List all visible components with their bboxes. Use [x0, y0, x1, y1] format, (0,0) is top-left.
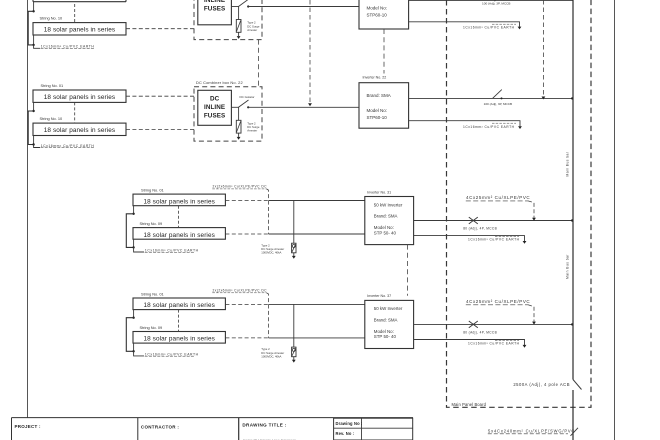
wire: string1 dashed to combiner 2	[126, 95, 194, 97]
wire: inverter1 earth	[409, 22, 520, 27]
svg-text:Inverter No. 31: Inverter No. 31	[367, 190, 391, 194]
wire: inverter AC output	[414, 220, 573, 222]
node: junction dot string2	[32, 143, 34, 145]
svg-text:Drawing No :: Drawing No :	[336, 421, 363, 426]
solar string box 2: 18 solar panels in series	[133, 228, 225, 240]
wire: collector to inverter input 1	[269, 200, 365, 202]
svg-text:DC Isolator: DC Isolator	[240, 95, 255, 99]
svg-text:50 kW Inverter: 50 kW Inverter	[374, 202, 403, 207]
svg-text:String No. 09: String No. 09	[140, 221, 163, 226]
wire: arrester to earth	[238, 32, 240, 36]
svg-text:100 (Adj), 3P, MCCB: 100 (Adj), 3P, MCCB	[482, 1, 511, 5]
solar string box 1: 18 solar panels in series	[33, 90, 126, 102]
wire: string2 drop	[133, 343, 135, 351]
MCCB X symbol	[469, 321, 478, 328]
svg-text:50 kW Inverter: 50 kW Inverter	[374, 306, 403, 311]
wire: surge arrester drop	[238, 7, 240, 20]
drawing no cell box	[334, 418, 413, 440]
svg-text:2x(2x6mm² Cu/XLPE/PVC DC: 2x(2x6mm² Cu/XLPE/PVC DC	[213, 289, 268, 293]
node: bus junction	[571, 219, 573, 221]
svg-text:18 solar panels in series: 18 solar panels in series	[44, 127, 115, 134]
wire: collector to inverter input 2	[269, 337, 365, 339]
node: bus junction	[571, 323, 573, 325]
solar string box (top, cropped) bottom edge	[33, 1, 126, 3]
DC combiner enclosure (dashed)	[194, 0, 262, 40]
svg-text:Model No:: Model No:	[374, 225, 394, 230]
inverter box SMA STP60-10	[359, 0, 409, 29]
svg-text:1Cx16mm² Cu/PVC EARTH: 1Cx16mm² Cu/PVC EARTH	[41, 45, 95, 49]
earth arrow	[523, 241, 527, 244]
svg-text:DC: DC	[210, 96, 220, 103]
svg-text:CONTRACTOR :: CONTRACTOR :	[141, 424, 179, 429]
breaker blade inverter2	[493, 90, 502, 99]
DC isolator switch blade	[239, 100, 249, 107]
arrow: AC leader onto wire	[532, 322, 536, 325]
svg-text:80 (Adj), 4P, MCCB: 80 (Adj), 4P, MCCB	[463, 331, 497, 335]
svg-text:String No. 10: String No. 10	[40, 16, 64, 21]
node: junction dot string2	[32, 44, 34, 46]
svg-text:FUSES: FUSES	[204, 6, 226, 13]
svg-text:4Cx25mm² Cu/XLPE/PVC: 4Cx25mm² Cu/XLPE/PVC	[466, 195, 530, 200]
wire: inverter2 earth	[409, 121, 520, 127]
svg-text:STP 50- 40: STP 50- 40	[374, 230, 397, 235]
feeder cable tick	[571, 428, 579, 436]
svg-text:STP60-10: STP60-10	[367, 115, 388, 120]
svg-text:4Cx25mm² Cu/XLPE/PVC: 4Cx25mm² Cu/XLPE/PVC	[466, 299, 530, 304]
svg-text:1Cx16mm² Cu/PVC EARTH: 1Cx16mm² Cu/PVC EARTH	[463, 125, 515, 129]
dashed AC cable leader	[528, 305, 534, 322]
MCCB X symbol	[469, 217, 478, 224]
svg-text:18 solar panels in series: 18 solar panels in series	[143, 198, 214, 205]
svg-text:STP60-10: STP60-10	[367, 13, 388, 18]
wire: string2 dashed to collector	[225, 233, 268, 235]
earth arrow inverter2	[518, 126, 522, 129]
node: dot string1	[132, 213, 134, 215]
wire: fuse box to isolator	[231, 106, 238, 108]
inverter box SMA STP60-10	[359, 83, 409, 129]
svg-text:Main Panel Board: Main Panel Board	[452, 402, 487, 407]
wire: earth bracket	[126, 318, 133, 352]
svg-text:DRAWING TITLE :: DRAWING TITLE :	[242, 423, 286, 428]
wire: string1 drop	[133, 206, 135, 214]
inverter box 50kW SMA STP 50-40	[365, 197, 414, 245]
title block top line	[12, 417, 414, 419]
svg-text:Model No:: Model No:	[374, 329, 394, 334]
svg-text:Inverter No. 22: Inverter No. 22	[363, 76, 387, 80]
main bus bar continuation	[572, 390, 574, 440]
node: dot string2	[132, 350, 134, 352]
wire: string2 dashed to combiner 1	[126, 28, 194, 30]
solar string box 2: 18 solar panels in series	[133, 332, 225, 344]
wire: earth tail	[134, 351, 144, 356]
wire: isolator to inverter input	[248, 106, 359, 108]
main panel board enclosure (dashed, cropped top)	[447, 0, 592, 407]
svg-text:18 solar panels in series: 18 solar panels in series	[44, 94, 115, 101]
wire: earth bracket	[126, 214, 133, 248]
breaker blade inverter1 (cropped)	[495, 0, 504, 1]
svg-text:Inverter No. 37: Inverter No. 37	[367, 294, 391, 298]
svg-text:1Cx16mm² Cu/PVC EARTH: 1Cx16mm² Cu/PVC EARTH	[463, 26, 515, 30]
wire: string1 negative drop	[33, 2, 35, 12]
node: dot string1	[132, 317, 134, 319]
wire: inverter earth output	[414, 340, 525, 346]
svg-text:2500A (Adj), 4 pole ACB: 2500A (Adj), 4 pole ACB	[513, 382, 570, 387]
svg-text:80 (Adj), 4P, MCCB: 80 (Adj), 4P, MCCB	[463, 227, 497, 231]
svg-text:1Cx16mm² Cu/PVC EARTH: 1Cx16mm² Cu/PVC EARTH	[468, 237, 520, 241]
ACB breaker blade	[573, 380, 582, 390]
svg-text:1000VDC, 40kA: 1000VDC, 40kA	[261, 354, 281, 358]
svg-text:18 solar panels in series: 18 solar panels in series	[143, 232, 214, 239]
node: dot string2	[132, 246, 134, 248]
node: junction dot string1	[32, 10, 34, 12]
wire: string1 drop	[133, 310, 135, 318]
wire: surge arrester drop	[293, 201, 295, 244]
wire: isolator to inverter input	[248, 6, 359, 8]
dashed link combiner1-combiner2	[258, 40, 260, 87]
node: isolator contact dot	[247, 5, 249, 7]
wire: earth bracket	[28, 111, 33, 145]
main bus bar	[572, 0, 574, 380]
wire: earth tail	[34, 45, 40, 48]
svg-text:Arrester: Arrester	[247, 129, 257, 133]
surge arrester (type 2)	[292, 243, 296, 253]
svg-text:1Cx16mm² Cu/PVC EARTH: 1Cx16mm² Cu/PVC EARTH	[468, 341, 520, 345]
dashed link inverter1-inverter2	[383, 29, 385, 74]
svg-text:5x4Cx240mm² Cu/XLPE/SWG/PVC: 5x4Cx240mm² Cu/XLPE/SWG/PVC	[488, 428, 575, 433]
wire: earth tail	[34, 145, 40, 148]
title block divider 1	[137, 418, 139, 440]
wire: surge arrester drop	[293, 304, 295, 347]
surge arrester (type 2)	[236, 20, 241, 33]
svg-text:Brand: SMA: Brand: SMA	[374, 214, 398, 219]
solar string box 1: 18 solar panels in series	[133, 194, 225, 206]
wire: arrester to earth	[293, 357, 295, 360]
svg-text:1Cx16mm² Cu/PVC EARTH: 1Cx16mm² Cu/PVC EARTH	[41, 144, 95, 148]
wire: string2 dashed to combiner 2	[126, 128, 194, 130]
svg-text:STP 50- 40: STP 50- 40	[374, 334, 397, 339]
svg-text:18 solar panels in series: 18 solar panels in series	[143, 336, 214, 343]
wire: earth tail	[134, 247, 144, 252]
svg-text:2x(2x6mm² Cu/XLPE/PVC DC: 2x(2x6mm² Cu/XLPE/PVC DC	[213, 185, 268, 189]
earth arrow inverter1	[518, 27, 522, 30]
svg-text:String No. 01: String No. 01	[141, 188, 164, 193]
wire: inverter AC output	[414, 323, 573, 325]
wire: string1 dashed to collector	[225, 200, 268, 202]
wire: string2 drop	[133, 239, 135, 247]
dashed link inverter3-inverter4	[407, 245, 409, 296]
right sheet border	[614, 0, 616, 440]
dashed string link	[178, 310, 180, 332]
inverter box 50kW SMA STP 50-40	[365, 300, 414, 348]
DC combiner enclosure (dashed)	[194, 87, 262, 141]
wire: fuse box to isolator	[231, 6, 238, 8]
dashed DC cable leader group2	[309, 0, 311, 102]
dashed string link group1	[74, 4, 76, 23]
svg-text:String No. 10: String No. 10	[40, 116, 64, 121]
svg-text:Rev. No :: Rev. No :	[336, 431, 355, 436]
wire: string2 dashed to collector	[225, 337, 268, 339]
wire: earth bracket	[28, 11, 33, 45]
svg-text:100 (Adj), 3P, MCCB: 100 (Adj), 3P, MCCB	[484, 102, 512, 106]
wire: inverter2 AC output	[409, 97, 573, 99]
wire: surge arrester drop	[238, 107, 240, 120]
wire: arrester to earth	[293, 253, 295, 256]
DC isolator switch blade	[239, 0, 249, 6]
svg-text:String No. 01: String No. 01	[41, 83, 64, 88]
svg-text:Arrester: Arrester	[247, 28, 257, 32]
wire: inverter earth output	[414, 236, 525, 242]
svg-text:1Cx16mm² Cu/PVC EARTH: 1Cx16mm² Cu/PVC EARTH	[145, 352, 199, 356]
svg-text:String No. 01: String No. 01	[141, 291, 164, 296]
title block divider 2	[238, 418, 240, 440]
earth terminal triangle	[237, 36, 241, 39]
wire: string1 negative drop	[33, 102, 35, 111]
node: junction dot string1	[32, 110, 34, 112]
node: isolator contact dot	[247, 106, 249, 108]
DC inline fuses box	[198, 90, 232, 125]
svg-text:Model No:: Model No:	[367, 108, 388, 113]
solar string box 1: 18 solar panels in series	[133, 298, 225, 310]
svg-text:Main Bus bar: Main Bus bar	[566, 254, 570, 279]
DC inline fuses box	[198, 0, 232, 25]
svg-text:String No. 09: String No. 09	[140, 325, 163, 330]
svg-text:Main Bus bar: Main Bus bar	[566, 151, 570, 176]
wire: string1 dashed to collector	[225, 303, 268, 305]
svg-text:FUSES: FUSES	[204, 112, 226, 119]
wire: arrester to earth	[238, 133, 240, 137]
earth arrow	[523, 345, 527, 348]
earth terminal triangle	[292, 360, 296, 363]
solar string box 2: 18 solar panels in series	[33, 23, 126, 35]
dashed AC cable leader	[528, 201, 534, 218]
svg-text:1000VDC, 40kA: 1000VDC, 40kA	[261, 251, 281, 255]
svg-text:Model No:: Model No:	[367, 5, 388, 10]
title block left edge	[11, 418, 13, 440]
wire: inverter1 AC output (cropped)	[409, 0, 573, 1]
left sheet border	[27, 0, 29, 418]
svg-text:INLINE: INLINE	[204, 0, 225, 4]
svg-text:Brand: SMA: Brand: SMA	[367, 93, 391, 98]
wire: string2 negative drop	[33, 35, 35, 45]
earth terminal triangle	[237, 137, 241, 140]
svg-text:1Cx16mm² Cu/PVC EARTH: 1Cx16mm² Cu/PVC EARTH	[145, 248, 199, 252]
svg-text:18 solar panels in series: 18 solar panels in series	[44, 27, 115, 34]
dashed string link	[178, 206, 180, 228]
dashed collector	[267, 293, 269, 338]
svg-text:DC Combiner box No. 22: DC Combiner box No. 22	[196, 80, 243, 85]
dashed collector	[267, 189, 269, 234]
wire: string2 negative drop	[33, 136, 35, 145]
solar string box 2: 18 solar panels in series	[33, 123, 126, 135]
earth terminal triangle	[292, 256, 296, 259]
svg-text:18 solar panels in series: 18 solar panels in series	[143, 302, 214, 309]
wire: collector to inverter input 2	[269, 233, 365, 235]
svg-text:INLINE: INLINE	[204, 104, 225, 111]
svg-text:PROJECT :: PROJECT :	[15, 424, 42, 429]
arrow: AC leader onto wire group2	[542, 97, 546, 100]
svg-text:Brand: SMA: Brand: SMA	[374, 317, 398, 322]
arrow: AC leader onto wire	[532, 218, 536, 221]
wire: collector to inverter input 1	[269, 303, 365, 305]
dashed AC cable leader group2	[542, 0, 544, 95]
node: bus junction group2	[571, 97, 573, 99]
surge arrester (type 2)	[236, 120, 241, 133]
arrow: leader onto wire	[308, 103, 312, 106]
dashed string link group2	[74, 102, 76, 123]
surge arrester (type 2)	[292, 347, 296, 357]
